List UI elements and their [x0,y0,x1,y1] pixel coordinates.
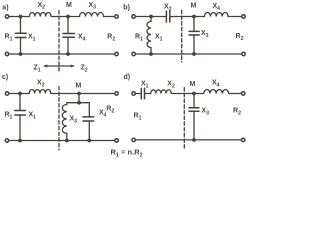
svg-text:R1: R1 [5,34,13,43]
svg-text:X4: X4 [78,34,86,43]
svg-text:X3: X3 [201,108,209,117]
svg-text:X3: X3 [70,116,78,125]
svg-text:R2: R2 [236,33,244,42]
svg-text:R1: R1 [135,34,143,43]
svg-text:Z2: Z2 [81,65,88,74]
svg-text:R1: R1 [134,113,142,122]
svg-text:R1: R1 [5,112,13,121]
svg-text:R2: R2 [233,108,241,117]
svg-text:X3: X3 [201,30,209,39]
svg-text:X3: X3 [89,2,97,11]
svg-text:X1: X1 [141,81,149,90]
svg-text:M: M [191,3,197,10]
svg-text:X2: X2 [164,4,172,13]
svg-text:X4: X4 [213,3,221,12]
svg-text:R2: R2 [107,34,115,43]
svg-text:a): a) [2,4,8,11]
svg-text:X1: X1 [29,112,37,121]
svg-text:Z1: Z1 [34,65,41,74]
svg-text:R1 = n.R2: R1 = n.R2 [111,148,143,159]
svg-text:M: M [190,81,196,88]
svg-text:X2: X2 [37,80,45,89]
svg-text:M: M [66,2,72,9]
svg-text:d): d) [124,74,131,81]
svg-text:X4: X4 [212,80,220,89]
svg-text:R2: R2 [106,106,114,115]
svg-text:c): c) [2,74,8,81]
svg-text:X2: X2 [38,2,46,11]
svg-text:M: M [76,83,82,90]
svg-text:X1: X1 [28,34,36,43]
svg-text:X1: X1 [155,34,163,43]
svg-text:X2: X2 [167,81,175,90]
svg-text:b): b) [123,5,130,12]
